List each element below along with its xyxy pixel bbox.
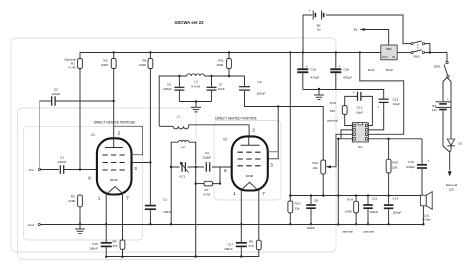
capacitor C3 100nF [149, 163, 151, 205]
svg-text:2: 2 [253, 127, 256, 132]
svg-text:C13: C13 [392, 97, 398, 101]
svg-text:D1: D1 [459, 141, 463, 145]
wire D1 to external terminal [450, 146, 451, 171]
wire IC1 pin4 to ground rail [338, 139, 352, 225]
svg-text:VC1: VC1 [179, 175, 185, 179]
svg-text:C8: C8 [314, 199, 318, 203]
terminal Ant [38, 168, 40, 170]
wire pot wiper to IC1 pin3 [332, 134, 353, 167]
svg-text:220pF: 220pF [58, 160, 67, 164]
switch SW2 [446, 61, 448, 63]
V3 anode bar [241, 144, 260, 146]
tube V3 DF96 [232, 136, 268, 190]
svg-text:22k: 22k [313, 166, 318, 170]
battery B2 9v [312, 10, 314, 19]
resistor R13 22k [288, 201, 293, 213]
svg-text:DF96: DF96 [246, 174, 254, 178]
resistor R14 100K optional [355, 196, 357, 202]
tuning wire [171, 166, 232, 168]
svg-text:OUT: OUT [382, 55, 388, 59]
svg-text:2: 2 [118, 130, 121, 135]
svg-text:100K: 100K [101, 63, 109, 67]
svg-text:1: 1 [98, 196, 101, 201]
svg-text:R12: R12 [312, 161, 318, 165]
svg-text:C11: C11 [372, 197, 378, 201]
svg-text:R13: R13 [295, 202, 301, 206]
svg-text:+: + [377, 105, 379, 109]
node R13 feed [289, 51, 291, 53]
wire ground bus to C13 [383, 89, 385, 99]
node R5 top [149, 51, 151, 53]
inductor L2 [171, 142, 178, 224]
svg-text:G0CWA set 22: G0CWA set 22 [175, 20, 205, 25]
node IC supply [359, 51, 361, 53]
svg-text:100nF: 100nF [224, 247, 233, 251]
wire IC1 pin1 to R16 [345, 114, 353, 125]
input section box [18, 108, 197, 260]
svg-text:L1: L1 [177, 115, 181, 119]
ground symbol [318, 89, 320, 95]
svg-text:C9: C9 [258, 80, 262, 84]
svg-text:100nF: 100nF [163, 210, 172, 214]
svg-text:L3: L3 [194, 80, 198, 84]
svg-text:470: 470 [112, 244, 117, 248]
resistor R3 100K [113, 52, 115, 59]
wire C13 to IC1 pin 7 [368, 102, 383, 129]
svg-text:C15: C15 [408, 160, 414, 164]
svg-text:7: 7 [262, 191, 265, 196]
svg-text:+: + [353, 91, 355, 95]
svg-text:SW1: SW1 [413, 54, 420, 58]
svg-text:3: 3 [134, 166, 137, 171]
svg-text:RG1: RG1 [368, 68, 375, 72]
wire R15 to bus [388, 173, 390, 196]
svg-text:R4: R4 [113, 239, 117, 243]
wire IC1 pin2 to ground [341, 130, 352, 139]
wire R3 to V1 anode pin2 [113, 101, 115, 138]
svg-text:C14: C14 [393, 196, 399, 200]
wire V3 pin1 [240, 188, 242, 242]
svg-text:optional: optional [327, 119, 338, 123]
capacitor C9 100nF [244, 76, 246, 86]
svg-text:4.7M: 4.7M [69, 66, 76, 70]
svg-text:IN: IN [392, 55, 395, 59]
svg-text:C3: C3 [163, 198, 167, 202]
wire HT to IC1 pin 6 [360, 52, 404, 134]
capacitor C16 470uF [335, 52, 337, 68]
svg-text:IC1: IC1 [358, 145, 363, 149]
svg-text:R15: R15 [392, 161, 398, 165]
2V reference output wire with arrow [361, 30, 389, 46]
node R3 top [113, 51, 115, 53]
svg-text:R3: R3 [104, 59, 108, 63]
wire V1 pin3 screen [132, 162, 151, 164]
svg-text:220pF: 220pF [163, 87, 172, 91]
svg-text:C1: C1 [60, 156, 64, 160]
capacitor C11 100nF optional [367, 196, 369, 204]
resistor R16 15K [342, 106, 347, 115]
wire L1 to V3 pin2 [189, 125, 249, 137]
V3 screen link wire [267, 151, 279, 153]
node B2 neg [302, 51, 304, 53]
variable capacitor VC1 [180, 161, 188, 172]
svg-text:1: 1 [233, 191, 236, 196]
wire reg IN to SW1 [397, 52, 411, 54]
svg-text:C17: C17 [228, 242, 234, 246]
wire speaker to ground rail [422, 206, 424, 225]
svg-text:optional: optional [363, 230, 374, 234]
svg-text:C10: C10 [310, 67, 316, 71]
svg-text:6: 6 [224, 168, 227, 173]
wire to SW2 [446, 53, 448, 62]
capacitor C2 220pF [40, 100, 52, 102]
node C16 top [335, 51, 337, 53]
svg-text:220pF: 220pF [52, 92, 61, 96]
op-amp IC1 body [352, 123, 368, 142]
svg-text:DIRECT HEATED PENTODE: DIRECT HEATED PENTODE [94, 121, 136, 125]
svg-text:R8: R8 [249, 240, 253, 244]
svg-text:C16: C16 [343, 67, 349, 71]
wire V3 pin3 anode [268, 107, 278, 159]
svg-text:220µF: 220µF [406, 165, 415, 169]
battery B1 12v [436, 101, 451, 103]
wire V1 anode to filter [159, 76, 187, 126]
svg-text:7: 7 [126, 196, 129, 201]
svg-text:470µF: 470µF [343, 76, 352, 80]
capacitor C12 10uF [357, 92, 359, 101]
capacitor C13 10uF [379, 98, 389, 100]
wire C15 to speaker [421, 169, 423, 195]
svg-text:12v: 12v [432, 108, 437, 112]
svg-text:optional: optional [342, 230, 353, 234]
filament return rail [106, 256, 259, 258]
svg-text:470µF: 470µF [311, 76, 320, 80]
wire V1 pin7 [122, 192, 124, 240]
svg-text:100µF: 100µF [393, 211, 402, 215]
V1 grids dashed [103, 154, 127, 156]
svg-text:DF96: DF96 [110, 178, 118, 182]
svg-text:+: + [306, 65, 308, 69]
potentiometer R12 22k [321, 160, 326, 174]
capacitor C7 10nF [211, 76, 213, 87]
svg-text:100K: 100K [139, 63, 147, 67]
V3 pentode section box [214, 121, 281, 201]
svg-text:4.7M: 4.7M [203, 193, 210, 197]
wire IC1 pin5 output [368, 138, 422, 140]
svg-text:+: + [308, 9, 310, 13]
V1 screen link wire [114, 126, 143, 155]
svg-text:REF: REF [386, 47, 392, 51]
wire V1 pin1 [105, 192, 107, 242]
svg-text:10nF: 10nF [218, 87, 225, 91]
svg-text:9v: 9v [317, 28, 321, 32]
svg-text:R11: R11 [218, 59, 224, 63]
svg-text:DIRECT HEATED PENTODE: DIRECT HEATED PENTODE [215, 117, 257, 121]
capacitor C17 100nF [236, 242, 247, 244]
svg-text:Gnd: Gnd [28, 223, 34, 227]
svg-text:4.7mH: 4.7mH [191, 84, 200, 88]
wire V3 pin7 [258, 188, 260, 240]
svg-text:C7: C7 [219, 82, 223, 86]
svg-text:+: + [428, 159, 430, 163]
resistor R4 470 [120, 240, 125, 249]
svg-text:SW2: SW2 [434, 65, 441, 69]
resistor R7 4.7M [195, 167, 197, 257]
ground rail wire [41, 224, 424, 226]
svg-text:10µF: 10µF [393, 102, 400, 106]
svg-text:+: + [339, 65, 341, 69]
ground bus wire [303, 89, 384, 91]
svg-text:12V: 12V [449, 188, 455, 192]
svg-text:100nF: 100nF [257, 92, 266, 96]
outer section box [11, 38, 336, 252]
resistor R11 100K [228, 52, 230, 59]
svg-text:100K: 100K [216, 63, 224, 67]
resistor R5 100K [149, 52, 151, 59]
loudspeaker LS1 [420, 195, 426, 206]
switch SW1 [411, 43, 413, 45]
svg-text:220K: 220K [68, 199, 76, 203]
svg-text:R5: R5 [142, 59, 146, 63]
tube V1 DF96 [97, 138, 132, 194]
svg-text:C6: C6 [167, 82, 171, 86]
V1 filament [108, 187, 122, 194]
svg-text:R2: R2 [71, 195, 75, 199]
svg-text:V1: V1 [91, 133, 95, 137]
capacitor C14 100uF [388, 196, 390, 205]
V3 filament [243, 182, 257, 189]
svg-text:100nF: 100nF [369, 210, 378, 214]
wire B2 left [303, 15, 312, 52]
svg-text:3: 3 [270, 162, 273, 167]
terminal Gnd [38, 223, 40, 225]
svg-text:6: 6 [88, 176, 91, 181]
capacitor C10 470uF [302, 52, 304, 68]
V1 pentode section box [24, 126, 143, 240]
svg-text:220pF: 220pF [202, 156, 211, 160]
inductor L3 4.7mH [187, 74, 205, 76]
svg-text:Ant: Ant [29, 168, 34, 172]
wire R16 to C12 [345, 96, 358, 105]
svg-text:C2: C2 [54, 87, 58, 91]
svg-text:22K: 22K [392, 166, 398, 170]
svg-text:C4: C4 [205, 151, 209, 155]
capacitor C19 100nF [101, 242, 112, 244]
diode D1 [447, 139, 454, 145]
node R11 top [228, 51, 230, 53]
svg-text:R16: R16 [330, 101, 336, 105]
resistor R1 4.7M optional [79, 52, 81, 59]
svg-text:100nF: 100nF [89, 247, 98, 251]
wire B1 to junction [443, 110, 450, 152]
HT rail wire [80, 52, 381, 54]
capacitor C6 220pF [178, 76, 180, 87]
V3 grids dashed [238, 151, 263, 153]
svg-text:10µF: 10µF [356, 111, 363, 115]
svg-text:100nF: 100nF [306, 226, 315, 230]
wire SW1 outputs [425, 44, 448, 53]
wire detector to volume pot [245, 91, 324, 160]
svg-text:R14: R14 [347, 197, 353, 201]
wire SW2 fork [443, 78, 447, 102]
capacitor C15 220uF [421, 139, 423, 164]
antenna riser wire [39, 101, 41, 168]
wire C1 to V1 grid [64, 169, 97, 171]
bus wire [290, 195, 420, 197]
resistor R8 470 [256, 240, 261, 249]
svg-text:C19: C19 [92, 242, 98, 246]
capacitor C4 220pF [204, 162, 212, 173]
regulator RG1 box [381, 45, 397, 60]
svg-text:L2: L2 [181, 145, 185, 149]
resistor R2 220K [78, 195, 83, 207]
wire B2 right to SW1 [326, 15, 411, 44]
filter ground symbol [195, 102, 197, 108]
svg-text:470: 470 [248, 244, 253, 248]
svg-text:22k: 22k [295, 207, 300, 211]
svg-text:+: + [447, 98, 449, 102]
HT feed wire to bus [289, 52, 291, 195]
svg-text:V3: V3 [223, 138, 227, 142]
capacitor C8 100nF [310, 196, 312, 204]
svg-text:R7: R7 [205, 188, 209, 192]
filter ground wire [179, 101, 211, 103]
svg-text:100K: 100K [345, 209, 353, 213]
svg-text:TR12: TR12 [385, 68, 393, 72]
wire pot to bus [322, 174, 324, 196]
resistor R15 22K [388, 139, 390, 160]
chassis ground under R2 [79, 224, 81, 229]
wire C12 to IC1 pin 8 [361, 96, 372, 125]
capacitor C1 220pF [59, 165, 61, 174]
V1 anode bar [105, 147, 123, 149]
svg-text:C12: C12 [357, 106, 363, 110]
svg-text:15K: 15K [330, 109, 336, 113]
